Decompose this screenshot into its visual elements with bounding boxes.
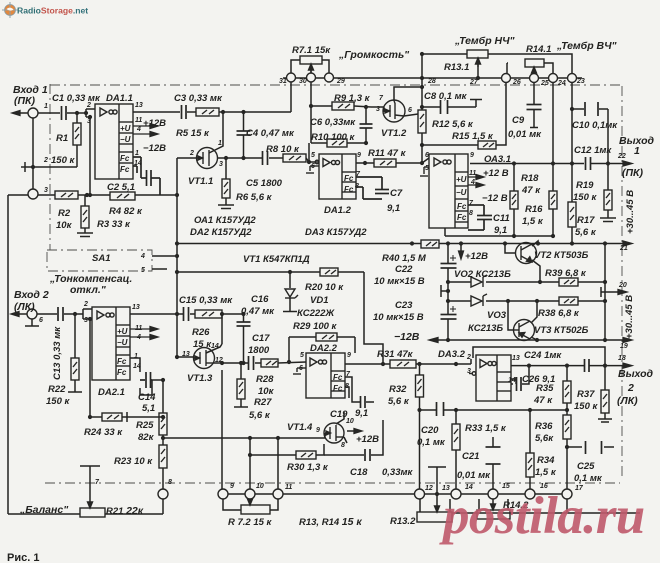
wire DA1.2 out to R11: [356, 162, 374, 164]
svg-text:R6 5,6 к: R6 5,6 к: [236, 192, 273, 203]
svg-text:47 к: 47 к: [533, 395, 553, 406]
svg-text:−U: −U: [456, 188, 467, 197]
capacitor C25: [586, 441, 602, 454]
svg-text:3: 3: [44, 187, 48, 194]
capacitor C13: [58, 307, 63, 321]
svg-text:VО3: VО3: [487, 310, 507, 321]
wire VD1 column: [289, 272, 291, 288]
resistor R26: [195, 310, 222, 318]
wire input1 to C1: [38, 112, 60, 114]
svg-text:10 мк×15 В: 10 мк×15 В: [373, 312, 424, 323]
svg-text:SA1: SA1: [92, 253, 110, 264]
svg-text:1,5 к: 1,5 к: [522, 216, 544, 227]
wire ladder line y=410: [420, 409, 437, 411]
svg-text:+12В: +12В: [465, 251, 488, 262]
svg-text:VТ1 К547КП1Д: VТ1 К547КП1Д: [243, 254, 310, 265]
svg-text:Fc: Fc: [120, 165, 130, 174]
svg-text:11: 11: [469, 170, 476, 177]
svg-text:28: 28: [427, 78, 436, 85]
svg-text:ОА3.1: ОА3.1: [484, 154, 511, 165]
zener VO2: [471, 275, 487, 287]
svg-text:R16: R16: [525, 204, 543, 215]
wire pot R7.1 leads: [291, 60, 300, 73]
svg-text:+12В: +12В: [143, 118, 166, 129]
svg-text:13: 13: [182, 351, 190, 358]
wire R9 line: [311, 105, 332, 107]
svg-text:VD1: VD1: [310, 295, 328, 306]
svg-text:(ЛК): (ЛК): [617, 395, 638, 407]
svg-text:DA1.2: DA1.2: [324, 205, 352, 216]
capacitor C4: [237, 131, 251, 135]
svg-text:С6 0,33мк: С6 0,33мк: [310, 117, 356, 128]
svg-text:R7.1 15к: R7.1 15к: [292, 45, 331, 56]
arrow output2: [623, 363, 632, 368]
wire R32 column: [419, 364, 421, 375]
terminal circles: [27, 73, 577, 499]
wire R31 to DA3.2: [416, 363, 471, 365]
svg-text:R17: R17: [577, 215, 595, 226]
svg-text:−12В: −12В: [394, 331, 420, 343]
capacitor C2: [133, 157, 160, 195]
svg-text:1: 1: [134, 353, 138, 360]
svg-text:R8 10 к: R8 10 к: [266, 144, 300, 155]
wire R37 column: [604, 366, 606, 390]
wire VT1.4 drain: [336, 412, 344, 424]
resistor R6: [222, 179, 230, 198]
wire R14.2 leads: [478, 499, 480, 510]
terminal 29: [325, 73, 334, 82]
wire R7.1 wiper column: [310, 64, 312, 143]
svg-text:C1 0,33 мк: C1 0,33 мк: [52, 93, 101, 104]
svg-text:22: 22: [617, 153, 626, 160]
wire +12V rail y=243.5: [177, 243, 421, 245]
wire x250 column to circle10: [249, 438, 251, 489]
resistor R33: [452, 424, 460, 450]
wire R30 line y=455: [250, 454, 296, 456]
svg-text:1: 1: [135, 150, 139, 157]
wire circles row top: [283, 77, 582, 79]
wire R27 column: [240, 363, 242, 379]
wire VT1.4 source arrow +12: [344, 437, 347, 443]
op-amp DA2.1: [92, 307, 130, 380]
svg-text:Fc: Fc: [117, 357, 127, 366]
svg-text:1800: 1800: [248, 345, 270, 356]
capacitor C19: [361, 396, 366, 408]
resistor R5: [196, 108, 219, 116]
svg-text:9: 9: [357, 152, 361, 159]
resistor R37: [601, 390, 609, 413]
wire VT3 collector: [531, 301, 537, 323]
potentiometer R14.1: [525, 59, 544, 74]
terminal 24: [549, 74, 558, 83]
wire circle1 column: [32, 118, 34, 189]
svg-text:R24 33 к: R24 33 к: [84, 427, 123, 438]
svg-text:14: 14: [133, 363, 141, 370]
svg-text:R13.2: R13.2: [390, 516, 416, 527]
wire DA2.2 out to R31: [345, 363, 390, 365]
wire bottom long line through watermark: [452, 512, 640, 514]
capacitor C10: [585, 102, 598, 116]
wire VT1.3 source line: [214, 362, 248, 364]
wire DA3.1 out line: [470, 163, 584, 165]
svg-text:10: 10: [256, 483, 264, 490]
resistor boxes vertical: w 8 h ~22: [71, 110, 612, 477]
svg-text:82к: 82к: [138, 432, 155, 443]
resistor R10: [327, 139, 347, 147]
transistor VT1.1 (FET): [197, 148, 218, 169]
svg-text:C18: C18: [350, 467, 368, 478]
wire terminal 20: [600, 287, 602, 297]
svg-text:RadioStorage.net: RadioStorage.net: [17, 6, 88, 16]
dash-dot section borders: [45, 84, 622, 483]
svg-text:+12 В: +12 В: [483, 168, 509, 179]
svg-text:R39 6,8 к: R39 6,8 к: [545, 268, 587, 279]
wire R20 right column: [364, 272, 383, 364]
svg-text:C12 1мк: C12 1мк: [574, 145, 612, 156]
svg-text:9,1: 9,1: [355, 408, 368, 419]
wire VT3 base tap: [508, 301, 513, 330]
resistor R9: [332, 102, 354, 110]
svg-text:6: 6: [425, 152, 429, 159]
wire C8 line: [422, 106, 440, 108]
svg-text:−U: −U: [117, 338, 128, 347]
capacitor C14: [140, 372, 152, 388]
svg-text:6: 6: [39, 317, 43, 324]
wire C18 line: [324, 454, 364, 456]
svg-text:13: 13: [512, 355, 520, 362]
svg-text:C14: C14: [138, 392, 156, 403]
svg-text:R13, R14 15 к: R13, R14 15 к: [299, 516, 362, 528]
svg-text:DA3 К157УД2: DA3 К157УД2: [305, 227, 367, 238]
svg-text:C8 0,1 мк: C8 0,1 мк: [424, 91, 468, 102]
wire VT1.2 drain up: [394, 87, 422, 101]
svg-text:DA2.1: DA2.1: [98, 387, 125, 398]
op-amp DA2.2: [293, 353, 345, 398]
svg-text:8: 8: [341, 442, 345, 449]
wire DA2.1 out to C15: [130, 313, 183, 315]
transistor VT3 (PNP): [513, 320, 535, 341]
wire R16 column: [552, 83, 554, 191]
svg-text:2: 2: [83, 301, 88, 308]
wire R26 to VT1.3 node: [222, 313, 244, 315]
wire antenna tap upper: [440, 285, 442, 297]
terminal 14: [488, 489, 498, 499]
svg-text:0,1 мк: 0,1 мк: [574, 473, 603, 484]
arrow +12V rail right (21): [623, 241, 632, 246]
wire rail 236: [444, 228, 446, 236]
svg-text:VО2 КС213Б: VО2 КС213Б: [454, 269, 511, 280]
resistor R27: [237, 379, 245, 399]
capacitor C22 electrolytic: [441, 264, 457, 269]
wire bottom terminals row: [218, 493, 572, 495]
resistor R29: [316, 333, 337, 341]
wire SA1 pin5: [152, 268, 167, 270]
svg-text:25: 25: [540, 80, 549, 87]
resistor R25: [159, 413, 167, 435]
terminal input1: [28, 108, 38, 118]
svg-text:9,1: 9,1: [387, 203, 400, 214]
svg-text:C10 0,1мк: C10 0,1мк: [572, 120, 618, 131]
pin number labels: [39, 78, 628, 492]
svg-text:R12 5,6 к: R12 5,6 к: [432, 119, 474, 130]
wire x278 column to circle11: [277, 438, 279, 489]
wire VT3 emitter: [531, 337, 537, 340]
wire C10 line: [572, 108, 584, 110]
svg-text:R5 15 к: R5 15 к: [176, 128, 210, 139]
svg-text:0,01 мк: 0,01 мк: [508, 129, 542, 140]
wire C4 column: [243, 112, 245, 131]
svg-text:+30...45 В: +30...45 В: [624, 295, 635, 339]
svg-text:6: 6: [299, 365, 303, 372]
resistor boxes horizontal: x,y = left top; w 23 h 8 with slashes: [55, 102, 578, 459]
svg-text:5: 5: [425, 165, 429, 172]
svg-text:−U: −U: [120, 135, 131, 144]
wire output1: [591, 163, 629, 165]
svg-text:R15 1,5 к: R15 1,5 к: [452, 131, 494, 142]
wire input2 ground: [31, 319, 33, 326]
svg-text:R19: R19: [576, 180, 594, 191]
svg-text:6: 6: [408, 107, 412, 114]
svg-text:R28: R28: [256, 374, 274, 385]
svg-text:Fc: Fc: [333, 373, 343, 382]
capacitor C20: [437, 402, 444, 416]
svg-text:(ПК): (ПК): [14, 95, 36, 107]
svg-text:Fc: Fc: [344, 174, 354, 183]
svg-text:12: 12: [215, 357, 223, 364]
svg-text:R13.1: R13.1: [444, 62, 469, 73]
svg-text:VT1.3: VT1.3: [187, 373, 213, 384]
transistor VT1.3 (FET): [194, 348, 215, 369]
svg-text:−12 В: −12 В: [482, 193, 508, 204]
wire VT2 emitter to R39: [532, 260, 540, 282]
svg-text:3: 3: [467, 368, 471, 375]
wire R25 R23 column: [162, 380, 164, 413]
svg-text:С17: С17: [252, 333, 270, 344]
svg-text:9: 9: [470, 152, 474, 159]
svg-text:30: 30: [299, 78, 307, 85]
capacitor C7: [356, 177, 389, 199]
svg-text:Fc: Fc: [120, 154, 130, 163]
svg-text:11: 11: [135, 117, 142, 124]
svg-text:+12В: +12В: [356, 434, 379, 445]
svg-text:1: 1: [218, 140, 222, 147]
svg-text:11: 11: [135, 325, 142, 332]
wire input2 to C13: [37, 313, 57, 315]
terminal 10: [245, 489, 255, 499]
svg-text:R23 10 к: R23 10 к: [114, 456, 153, 467]
capacitor C21: [486, 447, 501, 464]
svg-text:11: 11: [285, 484, 292, 491]
resistor R18: [510, 191, 518, 209]
svg-text:С13 0,33 мк: С13 0,33 мк: [52, 326, 63, 380]
terminal 23: [568, 74, 577, 83]
svg-text:27: 27: [469, 79, 479, 86]
wire VT2 collector: [532, 241, 538, 246]
capacitor C1: [62, 106, 67, 120]
svg-text:Fc: Fc: [117, 368, 127, 377]
svg-text:R21 22к: R21 22к: [106, 505, 144, 517]
svg-text:R22: R22: [48, 384, 66, 395]
wire input2 arrow: [12, 313, 27, 315]
wire volume pot column left: [290, 73, 292, 112]
wire R5 to pot column: [219, 111, 291, 113]
svg-text:R33 1,5 к: R33 1,5 к: [465, 423, 507, 434]
wire input1 arrow: [13, 112, 28, 114]
wire C13 to DA2.1: [64, 313, 83, 315]
resistor R15: [478, 141, 496, 149]
wire C16 column: [243, 314, 245, 322]
capacitor C26: [517, 377, 522, 391]
wire VT1.3 gate: [177, 356, 194, 358]
wire R10 line: [311, 142, 327, 144]
svg-text:5: 5: [300, 352, 304, 359]
op-amp DA1.2: [306, 154, 356, 199]
svg-text:R1: R1: [56, 133, 68, 144]
arrow input1: [12, 111, 20, 116]
wire R1 column: [76, 113, 78, 123]
wire R34 column: [529, 410, 531, 453]
svg-text:13: 13: [135, 102, 143, 109]
wire R22 column: [74, 314, 76, 358]
resistor R38: [559, 297, 578, 305]
svg-text:C5 1800: C5 1800: [246, 178, 283, 189]
terminal 3: [28, 189, 38, 199]
svg-text:Fc: Fc: [457, 213, 467, 222]
svg-text:R2: R2: [58, 208, 71, 219]
svg-text:C20: C20: [421, 425, 439, 436]
wire R14.1 right lead: [544, 63, 553, 74]
svg-text:5,6 к: 5,6 к: [388, 396, 410, 407]
wire antenna tap lower: [428, 466, 446, 468]
op-amp DA1.1: [95, 104, 133, 179]
capacitor C6: [360, 124, 373, 128]
svg-text:R18: R18: [521, 173, 539, 184]
resistor R4: [110, 192, 135, 200]
resistor R36: [563, 415, 571, 439]
capacitor C18: [365, 449, 370, 461]
svg-text:C2 5,1: C2 5,1: [107, 182, 135, 193]
wire R13.1 wiper: [477, 59, 479, 78]
svg-text:КС213Б: КС213Б: [468, 323, 503, 334]
capacitor C23 electrolytic: [441, 315, 457, 320]
svg-text:C15 0,33 мк: C15 0,33 мк: [179, 295, 233, 306]
svg-text:150 к: 150 к: [573, 192, 597, 203]
svg-text:−12В: −12В: [143, 143, 166, 154]
svg-text:Выход: Выход: [618, 368, 654, 380]
wire R35 R36 column: [566, 366, 568, 381]
svg-text:3: 3: [84, 317, 88, 324]
wire DA3.2 out line y=365.6: [511, 365, 584, 367]
wire SA1 pin4: [152, 255, 177, 257]
op-amp DA3.2: [469, 355, 511, 401]
wire R7.2 pot leads: [223, 499, 241, 510]
wire R4 to bus: [135, 194, 177, 196]
svg-text:C11: C11: [493, 213, 510, 224]
wire C6 column: [365, 107, 367, 124]
capacitor C11: [468, 205, 492, 230]
wire VO3/R38 line y=301: [448, 300, 471, 302]
wire bus x422: [421, 54, 423, 110]
terminal 11: [273, 489, 283, 499]
wire C14 stair: [130, 358, 140, 372]
wire zener VO2 / R39 line y=282: [448, 281, 471, 283]
svg-text:R3 33 к: R3 33 к: [97, 219, 131, 230]
capacitor C12: [586, 157, 591, 170]
svg-text:R20 10 к: R20 10 к: [305, 282, 344, 293]
arrow output1: [623, 161, 632, 166]
wire C15 to R26: [190, 313, 195, 315]
transistor VT2 (NPN): [516, 243, 537, 264]
svg-text:14: 14: [211, 343, 219, 350]
wire C9 column: [533, 83, 535, 104]
transistor VT1.4 (FET): [324, 423, 344, 443]
wire C25 line: [567, 446, 582, 448]
capacitor C5: [263, 151, 268, 165]
capacitor C8: [441, 100, 448, 114]
svg-text:0,47 мк: 0,47 мк: [241, 306, 275, 317]
wire ground branch ch1: [33, 166, 77, 168]
arrow DA2.1 +12 pin: [150, 327, 158, 332]
potentiometer R13.2: [417, 506, 452, 522]
arrow terminal 20: [618, 290, 627, 295]
svg-text:0,1 мк: 0,1 мк: [417, 437, 446, 448]
svg-text:С16: С16: [251, 294, 269, 305]
wire R8 to DA1.2: [306, 158, 309, 162]
svg-text:10к: 10к: [56, 220, 73, 231]
wire output2: [589, 365, 629, 367]
svg-text:10 мк×15 В: 10 мк×15 В: [374, 276, 425, 287]
svg-text:150 к: 150 к: [574, 401, 598, 412]
resistor R8: [283, 154, 306, 162]
wire C21 stems: [492, 437, 494, 447]
terminal 13: [451, 489, 461, 499]
wire R13.1 left lead: [422, 53, 467, 55]
svg-text:150 к: 150 к: [51, 155, 75, 166]
zener VD1: [285, 289, 298, 298]
wire R3 column: [84, 195, 86, 206]
terminal 25: [530, 74, 539, 83]
svg-text:47 к: 47 к: [521, 185, 541, 196]
wire VT1.3 drain: [206, 344, 222, 353]
terminal input2: [27, 309, 37, 319]
svg-text:R11 47 к: R11 47 к: [368, 148, 407, 159]
svg-text:12: 12: [425, 485, 433, 492]
svg-text:DA3.2: DA3.2: [438, 349, 466, 360]
svg-text:DA1.1: DA1.1: [106, 93, 133, 104]
svg-text:8: 8: [168, 479, 172, 486]
svg-text:2: 2: [466, 354, 471, 361]
svg-text:26: 26: [512, 79, 521, 86]
svg-text:0,33мк: 0,33мк: [382, 467, 414, 478]
potentiometer R21: [80, 502, 105, 517]
svg-text:R35: R35: [536, 383, 554, 394]
svg-text:9: 9: [347, 352, 351, 359]
capacitor C9: [527, 105, 542, 110]
wire R21 line: [8, 513, 80, 515]
svg-text:R 7.2 15 к: R 7.2 15 к: [228, 517, 273, 528]
wire DA1.1 out: [133, 111, 180, 113]
capacitor C24: [585, 359, 590, 372]
terminal 12: [415, 489, 425, 499]
svg-text:18: 18: [618, 355, 626, 362]
svg-text:R27: R27: [254, 397, 272, 408]
capacitor C16: [237, 322, 251, 326]
wire C22-C23 mid column: [447, 282, 449, 301]
svg-text:20: 20: [618, 282, 627, 289]
svg-text:29: 29: [336, 78, 345, 85]
wire C5 to R8: [269, 157, 283, 159]
potentiometer R7.1: [300, 56, 322, 73]
